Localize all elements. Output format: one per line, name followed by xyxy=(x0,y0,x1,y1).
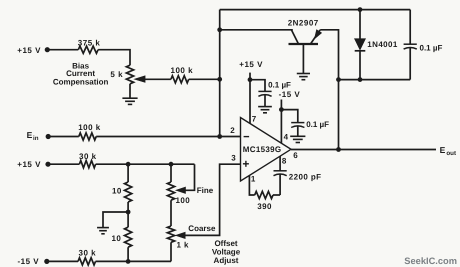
svg-text:3: 3 xyxy=(231,154,236,163)
wire coarse wiper to pin3 xyxy=(185,164,241,235)
op-amp U1 MC1539G xyxy=(241,118,292,182)
svg-text:100 k: 100 k xyxy=(171,66,194,75)
wire divider top lead xyxy=(127,164,129,182)
label pin 2 xyxy=(230,126,235,135)
wire to C2 xyxy=(281,110,297,123)
svg-text:SeekIC.com: SeekIC.com xyxy=(404,256,457,266)
wire fine wiper loop xyxy=(185,164,194,190)
label Bias Current Compensation xyxy=(53,62,109,87)
diode D1 1N4001 xyxy=(355,39,366,51)
wire fine to coarse xyxy=(170,200,172,226)
label 390 xyxy=(257,202,272,211)
wire R4 to pin2 xyxy=(96,136,240,138)
label 1 k xyxy=(177,241,189,250)
svg-text:1: 1 xyxy=(251,174,256,183)
svg-text:390: 390 xyxy=(257,202,272,211)
label pin 7 xyxy=(252,114,257,123)
svg-text:8: 8 xyxy=(282,156,287,165)
label 30 k top xyxy=(79,152,97,161)
node clamp left xyxy=(336,77,341,82)
label 100 k bias xyxy=(171,66,194,75)
label C3 0.1uF xyxy=(420,44,443,53)
svg-text:100: 100 xyxy=(176,196,191,205)
node divider mid xyxy=(126,210,131,215)
potentiometer R7 1k coarse xyxy=(167,226,174,242)
svg-text:+15 V: +15 V xyxy=(17,160,41,169)
terminal -15V offset xyxy=(18,257,50,266)
svg-text:0.1 µF: 0.1 µF xyxy=(420,44,443,53)
node diode top xyxy=(358,7,363,12)
terminal Ein xyxy=(27,130,51,142)
label 100 xyxy=(176,196,191,205)
wire divider bottom lead xyxy=(127,247,129,261)
wire diode branch top xyxy=(359,10,361,39)
node divider top xyxy=(126,162,131,167)
label Coarse xyxy=(188,224,216,233)
svg-text:30 k: 30 k xyxy=(79,152,97,161)
label MC1539G xyxy=(243,145,282,154)
label pin 6 xyxy=(293,151,298,160)
resistor R4 100k input xyxy=(79,133,96,140)
plus sign pin3 xyxy=(243,161,249,167)
svg-text:1 k: 1 k xyxy=(177,241,189,250)
wire -15V to R10 xyxy=(47,260,78,262)
wire Ein to R4 xyxy=(48,136,79,138)
ground C1 xyxy=(258,107,272,113)
wire to C1 xyxy=(250,80,265,92)
svg-text:+15 V: +15 V xyxy=(17,46,41,55)
ground divider xyxy=(97,228,109,234)
wire C2 to ground xyxy=(297,126,299,136)
capacitor C1 0.1uF xyxy=(258,91,271,96)
wire C4 down xyxy=(279,174,281,195)
wire R10 to coarse xyxy=(96,260,172,262)
svg-text:E: E xyxy=(27,130,33,140)
svg-text:6: 6 xyxy=(293,151,298,160)
label pin 8 xyxy=(282,156,287,165)
wire emitter of Q1 to rail xyxy=(320,30,338,80)
terminal +15V offset xyxy=(17,160,50,169)
wire fine pot top lead xyxy=(170,164,172,182)
terminal +15V supply xyxy=(239,60,263,69)
capacitor C3 0.1uF xyxy=(404,44,417,49)
wire R1 to pot xyxy=(98,50,130,65)
wire C1 to ground xyxy=(264,95,266,107)
label Offset Voltage Adjust xyxy=(212,239,241,265)
label 1N4001 xyxy=(367,40,398,49)
resistor R5 30k top xyxy=(79,161,95,168)
ground bias pot xyxy=(122,98,137,104)
ground base of Q1 xyxy=(297,74,310,80)
wire cap C3 bottom xyxy=(409,48,411,80)
node diode bottom xyxy=(358,77,363,82)
svg-text:E: E xyxy=(440,145,446,155)
wire pot bottom xyxy=(129,84,131,98)
resistor R3 100k bias xyxy=(171,76,189,83)
wire top rail xyxy=(220,9,411,11)
svg-text:7: 7 xyxy=(252,114,257,123)
wiper arrow fine xyxy=(176,187,186,193)
wire mid to ground xyxy=(103,212,128,228)
wire +15V to R5 xyxy=(48,163,79,165)
svg-text:10: 10 xyxy=(112,187,122,196)
svg-text:Coarse: Coarse xyxy=(188,224,216,233)
svg-text:in: in xyxy=(33,135,39,142)
label 2200 pF xyxy=(289,173,322,182)
resistor R11 390 xyxy=(255,191,273,198)
label 100 k input xyxy=(78,123,101,132)
svg-text:out: out xyxy=(446,150,456,157)
terminal Eout xyxy=(440,145,456,157)
minus sign pin2 xyxy=(244,136,250,138)
svg-text:375 k: 375 k xyxy=(78,38,101,47)
wire right corner down xyxy=(409,10,411,45)
wire wiper to R3 xyxy=(144,78,171,80)
label C2 0.1uF xyxy=(306,120,329,129)
svg-text:Fine: Fine xyxy=(197,186,214,195)
svg-text:2: 2 xyxy=(230,126,235,135)
wire base of Q1 xyxy=(302,45,304,73)
node R3 bus junction xyxy=(217,77,222,82)
wire clamp to output xyxy=(338,80,340,150)
svg-text:10: 10 xyxy=(112,234,122,243)
wire R11 to pin1 xyxy=(249,175,254,195)
resistor R9 10 lower xyxy=(125,227,132,247)
label Fine xyxy=(197,186,214,195)
label 2N2907 xyxy=(288,19,319,28)
wire +15V to R1 xyxy=(47,49,78,51)
wire divider middle xyxy=(127,202,129,227)
capacitor C2 0.1uF xyxy=(291,123,304,128)
wire collector of Q1 xyxy=(220,29,293,31)
potentiometer R6 100 fine xyxy=(167,182,174,200)
node collector tap xyxy=(217,27,222,32)
svg-text:2N2907: 2N2907 xyxy=(288,19,319,28)
wire R5 to fine corner xyxy=(96,163,195,165)
label C1 0.1uF xyxy=(268,81,291,90)
label pin 1 xyxy=(251,174,256,183)
label 5 k xyxy=(110,70,123,79)
svg-text:-15 V: -15 V xyxy=(18,257,40,266)
label 10 lower xyxy=(112,234,122,243)
node pin4 cap tap xyxy=(279,107,284,112)
potentiometer R2 5k xyxy=(126,65,133,84)
node fine top xyxy=(169,162,174,167)
wire pin7 supply xyxy=(249,73,251,124)
wire coarse bottom lead xyxy=(170,242,172,261)
svg-text:MC1539G: MC1539G xyxy=(243,145,282,154)
svg-text:1N4001: 1N4001 xyxy=(367,40,398,49)
terminal -15V supply xyxy=(279,90,301,99)
watermark SeekIC.com xyxy=(404,256,457,266)
wire pin8 lead xyxy=(279,156,281,171)
svg-text:Compensation: Compensation xyxy=(53,77,109,86)
node output junction xyxy=(336,147,341,152)
resistor R8 10 upper xyxy=(125,182,132,202)
wire bottom of clamp section xyxy=(339,79,411,81)
node pin7 cap tap xyxy=(248,77,253,82)
svg-text:+15 V: +15 V xyxy=(239,60,263,69)
svg-text:0.1 µF: 0.1 µF xyxy=(306,120,329,129)
svg-text:4: 4 xyxy=(284,133,289,142)
label pin 3 xyxy=(231,154,236,163)
wire R3 to bus xyxy=(189,78,220,80)
wire diode branch bottom xyxy=(359,51,361,80)
wire left vertical bus xyxy=(219,10,221,137)
transistor Q1 2N2907 xyxy=(289,30,322,44)
svg-text:100 k: 100 k xyxy=(78,123,101,132)
svg-text:0.1 µF: 0.1 µF xyxy=(268,81,291,90)
wire pin4 supply xyxy=(280,100,282,144)
wiper arrow of R2 xyxy=(134,76,145,83)
wiper arrow coarse xyxy=(176,232,186,238)
label 375 k xyxy=(78,38,101,47)
terminal +15V bias xyxy=(17,46,50,55)
label pin 4 xyxy=(284,133,289,142)
svg-text:5 k: 5 k xyxy=(110,70,123,79)
label 10 upper xyxy=(112,187,122,196)
svg-text:Adjust: Adjust xyxy=(214,256,239,265)
ground C2 xyxy=(290,136,305,142)
capacitor C4 2200pF xyxy=(274,171,287,176)
resistor R10 30k bottom xyxy=(78,258,95,265)
wire output xyxy=(291,149,436,151)
resistor R1 375k xyxy=(78,46,98,53)
svg-text:2200 pF: 2200 pF xyxy=(289,173,322,182)
svg-text:30 k: 30 k xyxy=(79,248,97,257)
svg-text:-15 V: -15 V xyxy=(279,90,301,99)
label 30 k bottom xyxy=(79,248,97,257)
node bus input junction xyxy=(217,134,222,139)
wire C4 to R11 xyxy=(273,194,280,196)
node divider bottom xyxy=(126,259,131,264)
